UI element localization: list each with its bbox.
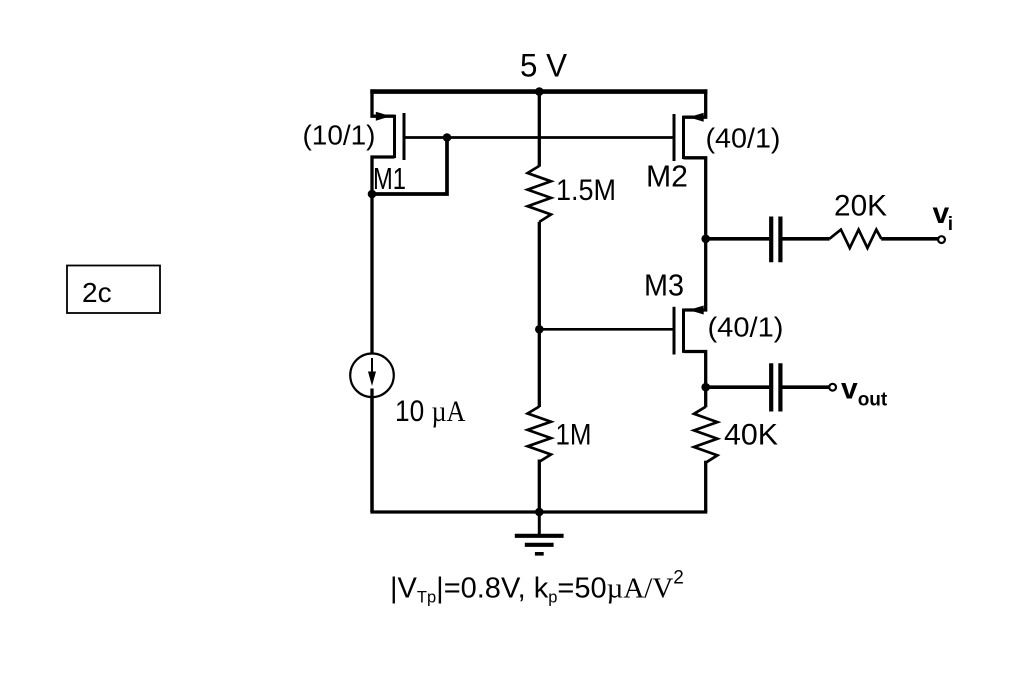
svg-text:10 µA: 10 µA (395, 395, 466, 428)
transistor M3 (40/1) PMOS (644, 239, 784, 389)
svg-text:40K: 40K (724, 419, 778, 452)
svg-text:vi: vi (933, 197, 953, 235)
M1 source arrow (376, 112, 391, 121)
label box 2c (67, 266, 160, 314)
transistor M1 (10/1) PMOS (303, 89, 407, 355)
resistor R 1.5M (528, 166, 551, 222)
capacitor C output (771, 363, 780, 411)
svg-text:5 V: 5 V (520, 48, 568, 84)
M3 gate bar (673, 307, 676, 355)
wire gate bus M1-M2 (404, 136, 673, 139)
M1 drain lead wire (372, 157, 395, 355)
M3 drain lead wire (684, 352, 706, 389)
wire middle branch lower (1M to ground rail) (538, 460, 541, 513)
svg-text:1.5M: 1.5M (556, 174, 616, 207)
wire 40K to bottom rail (704, 461, 707, 512)
svg-text:(40/1): (40/1) (706, 123, 781, 154)
resistor R 1M (528, 407, 551, 462)
M3 channel bar (682, 309, 685, 353)
wire vout branch right (782, 385, 829, 389)
svg-text:vout: vout (841, 373, 888, 411)
M1 gate bar (403, 113, 406, 160)
svg-text:M3: M3 (644, 268, 684, 303)
wire left branch (current source to bottom rail) (370, 355, 373, 512)
junction dot ground node (535, 508, 544, 517)
current source I 10uA (350, 354, 394, 513)
M2 drain lead wire (684, 158, 706, 240)
svg-text:(10/1): (10/1) (303, 120, 376, 151)
wire vi branch middle (782, 237, 829, 241)
junction dot node M3 gate (535, 325, 544, 334)
wire vi branch right (881, 237, 938, 241)
junction dot node vi coupling (701, 235, 710, 244)
M2 source lead wire (684, 89, 706, 117)
M1 source lead wire (372, 89, 395, 116)
resistor R 20K (829, 230, 881, 248)
wire M3 drain to 40K (704, 387, 707, 407)
transistor M2 (40/1) PMOS (646, 89, 781, 240)
M1 channel bar (393, 115, 396, 158)
wire bottom rail (370, 510, 707, 513)
capacitor C input (771, 217, 780, 263)
svg-text:M1: M1 (373, 161, 406, 196)
M3 source lead wire (684, 239, 706, 310)
wire M3 gate lead (node to gate bar) (539, 328, 672, 331)
svg-text:M2: M2 (646, 159, 688, 194)
svg-text:|VTp|=0.8V, kp=50µA/V2: |VTp|=0.8V, kp=50µA/V2 (390, 568, 684, 607)
svg-text:2c: 2c (82, 277, 112, 308)
wire middle branch upper (5V to 1.5M) (538, 92, 541, 167)
resistor R 40K (694, 407, 717, 463)
junction dot 5V rail / 1.5M branch (535, 87, 544, 96)
terminal vi (938, 236, 945, 243)
junction dot node vout coupling (701, 383, 710, 392)
M2 channel bar (682, 116, 685, 159)
wire middle branch (1.5M to 1M through gate node) (538, 222, 541, 407)
M3 source arrow (689, 306, 704, 315)
wire top 5V rail (370, 89, 707, 94)
junction dot gate tie (443, 133, 452, 142)
wire vi branch left (706, 237, 770, 241)
svg-text:20K: 20K (834, 190, 887, 223)
ground symbol (515, 512, 564, 554)
wire gate-drain tie of M1 (371, 138, 447, 195)
svg-text:1M: 1M (556, 419, 592, 452)
wire vout branch left (706, 385, 770, 389)
M2 gate bar (673, 114, 676, 161)
svg-text:(40/1): (40/1) (708, 312, 784, 343)
junction dot M1 drain tie (368, 190, 377, 199)
M2 source arrow (689, 113, 704, 122)
terminal vout (829, 384, 836, 391)
